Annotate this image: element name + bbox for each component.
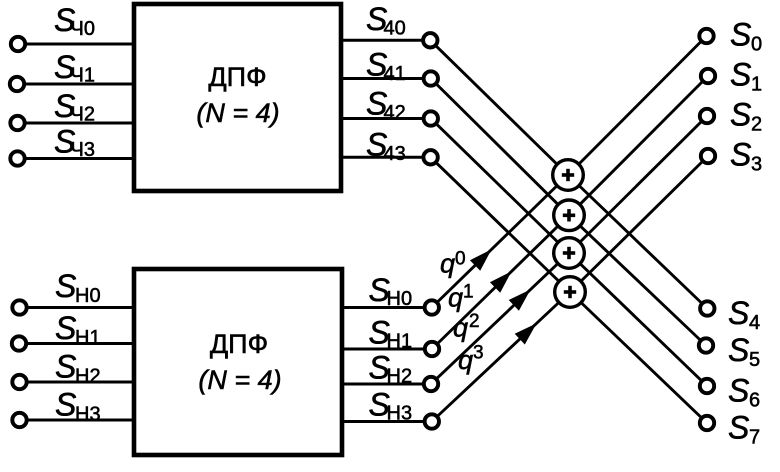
svg-text:q: q	[448, 283, 463, 313]
label S4	[728, 295, 760, 334]
label Sч0	[54, 2, 95, 40]
input terminal Sн1	[12, 336, 26, 350]
label Sн2 input	[55, 349, 101, 388]
input terminal Sн3	[12, 413, 26, 427]
label ДПФ (N=4) top box	[196, 62, 279, 128]
wire: Sн3 terminal to adder A4 (multiplied by q^3)	[432, 292, 570, 422]
wire: input Sч2 to top DFT	[18, 122, 138, 125]
adder A3 (summator)	[554, 238, 585, 269]
svg-text:41: 41	[384, 63, 406, 85]
svg-text:6: 6	[749, 390, 760, 412]
wire: input Sн3 to bottom DFT	[20, 419, 138, 422]
label Sн1 output	[369, 315, 413, 353]
wire: top DFT output S40	[339, 39, 430, 42]
svg-text:40: 40	[384, 18, 406, 40]
svg-text:ДПФ: ДПФ	[208, 62, 266, 92]
svg-text:2: 2	[469, 311, 480, 332]
wire: bottom DFT output Sн0	[340, 306, 432, 309]
svg-text:4: 4	[749, 312, 760, 334]
wire: adder A4 to output S3	[570, 156, 708, 292]
svg-text:1: 1	[463, 282, 474, 303]
label S43	[366, 127, 406, 166]
wire: Sн1 terminal to adder A2 (multiplied by q^1)	[432, 215, 569, 349]
label S6	[728, 373, 760, 412]
wire: bottom DFT output Sн1	[340, 348, 432, 351]
output terminal S6	[700, 379, 714, 393]
label Sн3 output	[369, 387, 413, 425]
wire: top DFT output S42	[339, 117, 431, 120]
label Sн1 input	[55, 310, 101, 349]
output terminal S5	[699, 338, 713, 352]
label S0	[730, 17, 762, 56]
arrowhead on q^2 line	[509, 290, 531, 311]
label Sч2	[54, 88, 95, 126]
svg-text:(N = 4): (N = 4)	[198, 365, 281, 395]
svg-text:Ч1: Ч1	[71, 65, 95, 87]
input terminal Sч1	[10, 77, 24, 91]
node Sн2 output terminal	[424, 377, 438, 391]
svg-text:43: 43	[384, 143, 406, 165]
svg-text:Ч3: Ч3	[71, 139, 95, 161]
block U1: DFT (ДПФ N=4) top	[134, 4, 341, 191]
svg-text:2: 2	[751, 114, 762, 136]
svg-text:Н0: Н0	[387, 288, 413, 310]
svg-text:S: S	[728, 410, 749, 446]
label S42	[366, 86, 406, 125]
output terminal S1	[701, 69, 715, 83]
wire: bottom DFT output Sн3	[340, 420, 432, 423]
wire: top DFT output S41	[339, 77, 431, 80]
input terminal Sч0	[11, 37, 25, 51]
svg-text:0: 0	[751, 34, 762, 56]
svg-text:Н3: Н3	[75, 404, 101, 426]
label q^2 (twiddle factor)	[453, 311, 480, 343]
arrowhead on q^3 line	[515, 323, 537, 344]
label Sн2 output	[369, 350, 413, 388]
svg-text:S: S	[730, 57, 751, 93]
wire: adder A2 to output S1	[569, 76, 708, 215]
svg-text:S: S	[728, 373, 749, 409]
input terminal Sн0	[12, 300, 26, 314]
node Sн0 output terminal	[425, 300, 439, 314]
label S7	[728, 410, 760, 449]
label S3	[730, 137, 762, 176]
wire: input Sч3 to top DFT	[18, 157, 138, 160]
svg-text:0: 0	[455, 249, 466, 270]
wire: adder A3 to output S6	[569, 253, 707, 386]
svg-text:Ч2: Ч2	[71, 104, 95, 126]
svg-text:Н0: Н0	[75, 285, 101, 307]
wire: S40 terminal to adder A1	[430, 40, 568, 175]
wire: top DFT output S43	[339, 156, 431, 159]
arrowhead on q^1 line	[490, 271, 512, 292]
output terminal S3	[701, 149, 715, 163]
label S2	[730, 97, 762, 136]
wire: adder A2 to output S5	[569, 215, 706, 345]
svg-text:7: 7	[749, 427, 760, 449]
wire: Sн2 terminal to adder A3 (multiplied by q^2)	[431, 253, 569, 384]
output terminal S0	[699, 29, 713, 43]
label S5	[728, 332, 760, 371]
svg-text:Н3: Н3	[387, 403, 413, 425]
wire: S42 terminal to adder A3	[431, 119, 569, 254]
svg-text:42: 42	[384, 102, 406, 124]
wire: Sн0 terminal to adder A1 (multiplied by q^0)	[432, 175, 568, 308]
output terminal S2	[700, 109, 714, 123]
arrowhead on q^0 line	[470, 249, 492, 270]
label Sч1	[54, 49, 95, 87]
svg-text:q: q	[458, 345, 473, 375]
node S40 terminal	[423, 33, 437, 47]
label Sн3 input	[55, 387, 101, 426]
label S1	[730, 57, 762, 96]
node S41 terminal	[424, 71, 438, 85]
output terminal S4	[700, 301, 714, 315]
svg-text:S: S	[55, 310, 76, 346]
svg-text:S: S	[55, 387, 76, 423]
label S40	[366, 1, 406, 40]
svg-text:3: 3	[473, 343, 484, 364]
svg-text:3: 3	[751, 154, 762, 176]
wire: adder A1 to output S0	[568, 36, 707, 175]
wire: adder A4 to output S7	[570, 292, 707, 423]
wire: input Sн2 to bottom DFT	[20, 381, 138, 384]
svg-text:Н1: Н1	[387, 331, 413, 353]
wire: input Sн0 to bottom DFT	[20, 306, 138, 309]
label Sн0 output	[369, 272, 413, 310]
svg-text:ДПФ: ДПФ	[210, 329, 268, 359]
svg-text:(N = 4): (N = 4)	[196, 98, 279, 128]
node Sн3 output terminal	[425, 414, 439, 428]
label q^3 (twiddle factor)	[458, 343, 484, 376]
svg-text:S: S	[55, 268, 76, 304]
svg-text:q: q	[440, 249, 455, 279]
svg-text:S: S	[55, 349, 76, 385]
wire: adder A1 to output S4	[568, 175, 707, 309]
adder A4 (summator)	[555, 277, 586, 308]
input terminal Sн2	[12, 375, 26, 389]
label q^1 (twiddle factor)	[448, 282, 474, 313]
svg-text:5: 5	[749, 349, 760, 371]
svg-text:S: S	[728, 332, 749, 368]
label ДПФ (N=4) bottom box	[198, 329, 281, 395]
svg-text:Ч0: Ч0	[71, 18, 95, 40]
wire: input Sч0 to top DFT	[18, 43, 137, 46]
node S43 terminal	[423, 150, 437, 164]
block U2: DFT (ДПФ N=4) bottom	[134, 269, 342, 455]
wire: bottom DFT output Sн2	[340, 383, 431, 386]
wire: S43 terminal to adder A4	[431, 157, 570, 292]
input terminal Sч3	[10, 151, 24, 165]
adder A2 (summator)	[554, 200, 585, 231]
svg-text:S: S	[730, 17, 751, 53]
wire: S41 terminal to adder A2	[431, 79, 569, 216]
wire: adder A3 to output S2	[569, 116, 707, 253]
svg-text:S: S	[730, 97, 751, 133]
svg-text:Н1: Н1	[75, 327, 101, 349]
input terminal Sч2	[10, 116, 24, 130]
wire: input Sн1 to bottom DFT	[19, 342, 137, 345]
svg-text:1: 1	[751, 74, 762, 96]
wire: input Sч1 to top DFT	[17, 83, 137, 86]
svg-text:Н2: Н2	[387, 366, 413, 388]
svg-text:S: S	[730, 137, 751, 173]
output terminal S7	[700, 416, 714, 430]
label q^0 (twiddle factor)	[440, 249, 466, 279]
label Sн0 input	[55, 268, 101, 307]
svg-text:S: S	[728, 295, 749, 331]
label S41	[366, 47, 406, 86]
node S42 terminal	[424, 111, 438, 125]
adder A1 (summator)	[553, 160, 584, 191]
label Sч3	[54, 124, 95, 162]
svg-text:q: q	[453, 313, 468, 343]
node Sн1 output terminal	[425, 342, 439, 356]
svg-text:Н2: Н2	[75, 366, 101, 388]
